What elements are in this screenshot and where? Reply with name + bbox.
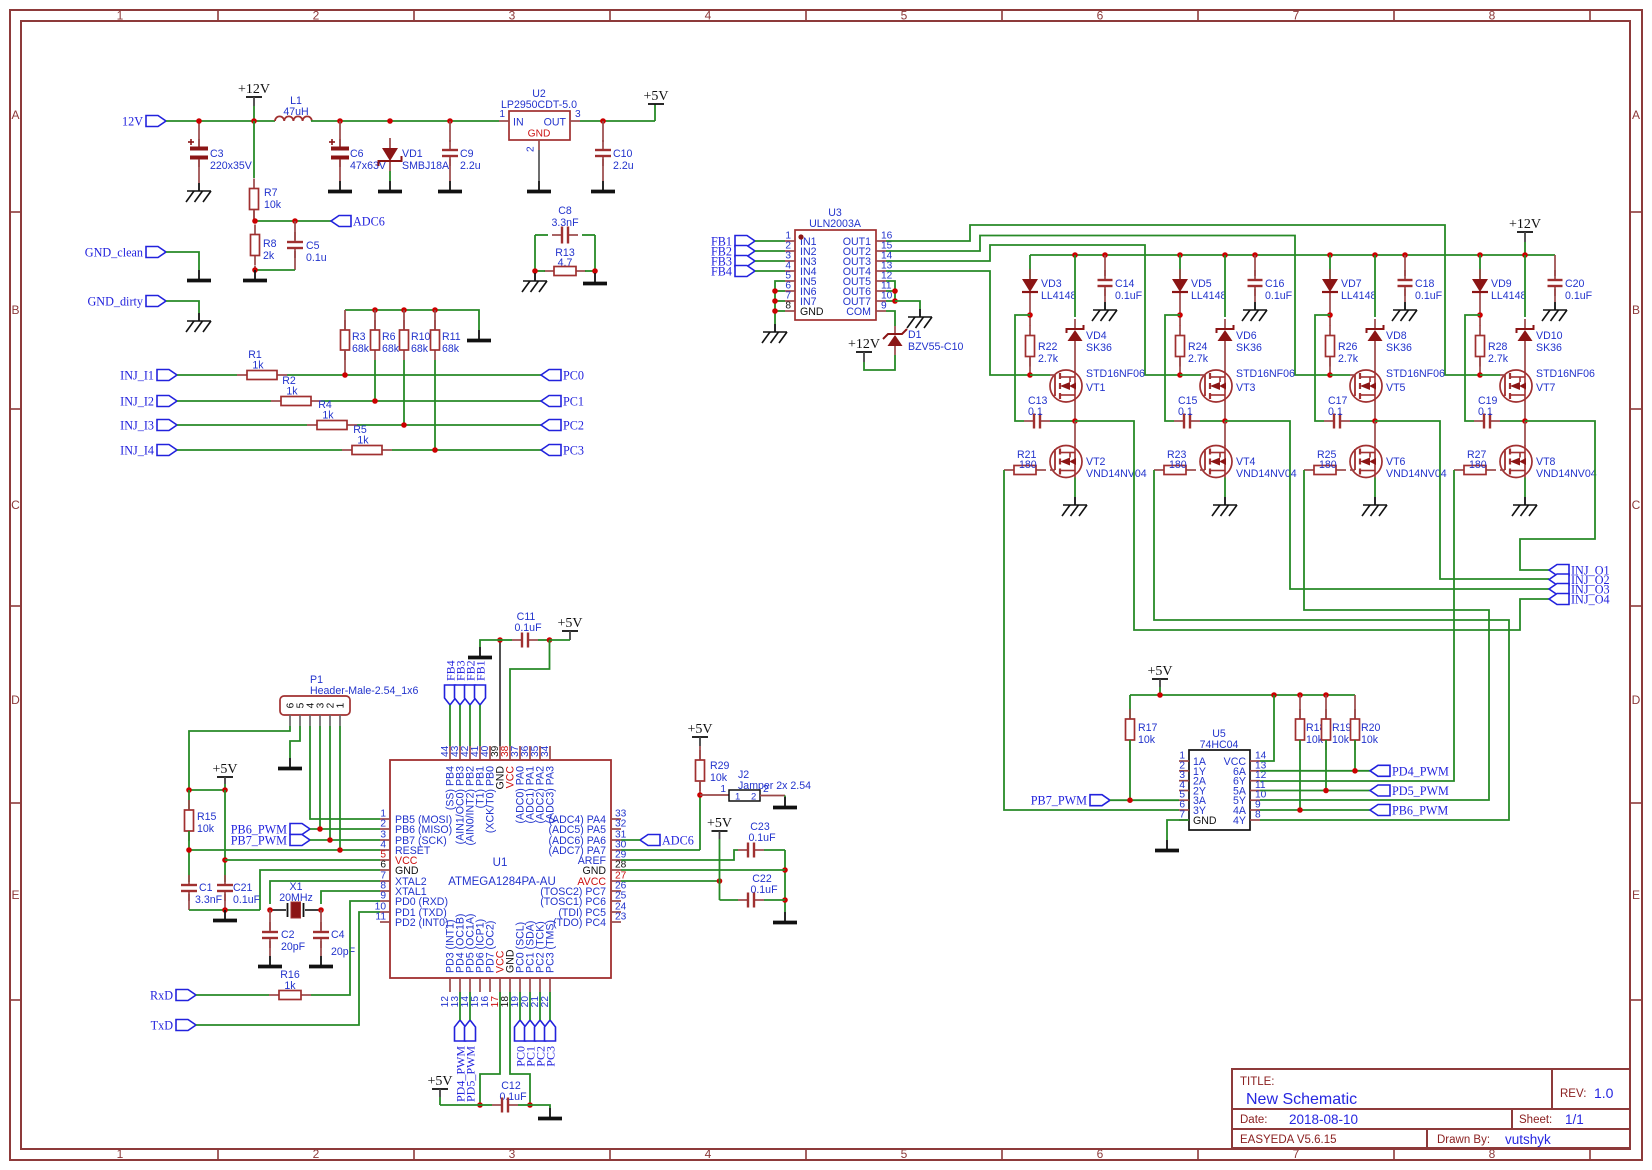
svg-text:PC3: PC3 [563,444,584,458]
svg-text:20pF: 20pF [281,941,306,953]
U1 pin 17 VCC [499,978,501,992]
ground under C8/R13 left [534,273,536,281]
resistor R25 180 [1304,469,1314,471]
wire 5Y to R25 gate net [1260,470,1489,800]
svg-text:C21: C21 [233,882,253,894]
capacitor C20 rail bypass [1554,255,1556,276]
svg-text:R6: R6 [382,331,396,343]
wire VD7 node to snubber cap [1315,315,1330,421]
svg-text:IN: IN [513,117,524,129]
svg-text:SK36: SK36 [1086,342,1112,354]
svg-text:R22: R22 [1038,341,1058,353]
U1 pin 34 (ADC3) PA3 [549,746,551,760]
svg-text:10k: 10k [710,772,728,784]
U1 pin 29 AREF [611,859,621,861]
svg-text:8: 8 [785,301,791,312]
svg-text:3: 3 [509,1147,516,1161]
capacitor C16 rail bypass [1254,255,1256,276]
svg-text:VD9: VD9 [1491,278,1512,290]
wire U2 out to +5V [580,120,655,122]
svg-text:STD16NF06: STD16NF06 [1386,368,1445,380]
svg-text:68k: 68k [411,343,429,355]
gate junction VT5 [1327,372,1333,378]
svg-text:PB7_PWM: PB7_PWM [1031,794,1087,808]
svg-text:PC0: PC0 [563,369,584,383]
port PD5_PWM [1370,785,1390,796]
svg-text:R15: R15 [197,811,217,823]
svg-text:3.3nF: 3.3nF [195,894,223,906]
U1 pin 22 PC3 (TMS) [549,978,551,992]
wire +5V to C12 [440,1104,480,1106]
svg-text:C1: C1 [199,882,213,894]
svg-text:PD5_PWM: PD5_PWM [464,1046,478,1102]
U3 pin 4 IN4 [785,270,795,272]
svg-text:ADC6: ADC6 [662,834,694,848]
transistor VT5 STD16NF06 [1350,370,1382,402]
svg-text:Drawn By:: Drawn By: [1437,1134,1490,1146]
svg-text:2: 2 [763,784,769,795]
resistor R27 180 [1454,469,1464,471]
ground under VT2 [1074,497,1076,505]
svg-text:12V: 12V [122,115,143,129]
port PC1 [541,396,561,407]
U1 pin 18 GND [509,978,511,992]
port FB2 [735,246,755,257]
svg-text:2.7k: 2.7k [1038,353,1059,365]
svg-text:VT7: VT7 [1536,382,1556,394]
U1 pin 40 (XCK/T0) PB0 [489,746,491,760]
wire P1 pin4 to PB5 [310,726,380,819]
wire ground bus under C1/C21 [189,909,260,911]
transistor VT8 VND14NV04 [1524,421,1526,446]
wire C11 left to ground [480,640,500,647]
resistor R6 [374,310,376,329]
U1 pin 20 PC1 (SDA) [529,978,531,992]
resistor R17 10k [1129,695,1131,719]
svg-text:10k: 10k [197,823,215,835]
svg-text:1: 1 [499,109,505,120]
U1 pin 25 (TOSC1) PC6 [611,900,621,902]
wire 4A to PB6_PWM [1260,809,1370,811]
svg-text:New Schematic: New Schematic [1246,1091,1357,1108]
svg-text:INJ_I4: INJ_I4 [120,444,154,458]
wire VT5 source to INJ_O2 [1375,421,1549,579]
svg-text:8: 8 [1489,1147,1496,1161]
svg-text:C20: C20 [1565,278,1585,290]
svg-text:VD10: VD10 [1536,330,1563,342]
ground under C10 [602,181,604,190]
svg-text:2.2u: 2.2u [460,160,481,172]
svg-text:3.3nF: 3.3nF [551,217,579,229]
svg-text:1.0: 1.0 [1594,1085,1614,1101]
capacitor C17 snubber [1324,420,1334,422]
wire P1 pin6 to +5V rail [189,726,290,790]
wire U5 VCC to rail [1260,695,1274,761]
svg-text:A: A [11,108,19,122]
wire OUT7 to ground [895,301,920,309]
U1 pin 14 PD5 (OC1A) [469,978,471,992]
wire source VT2 to ground [1074,478,1076,498]
svg-text:2: 2 [313,9,320,23]
wire AVCC row [621,880,720,882]
resistor R4 [307,424,317,426]
svg-text:11: 11 [375,912,386,923]
svg-text:180: 180 [1019,459,1037,471]
svg-text:3: 3 [575,109,581,120]
svg-text:C16: C16 [1265,278,1285,290]
svg-text:REV:: REV: [1560,1088,1586,1100]
svg-text:C14: C14 [1115,278,1135,290]
ground under C8/R13 right [594,273,596,282]
svg-text:PC1: PC1 [563,395,584,409]
resistor R5 [342,449,352,451]
svg-text:C18: C18 [1415,278,1435,290]
ground P1 pin5 [289,758,291,767]
port GND_clean [146,247,166,258]
ground under VT6 [1374,497,1376,505]
svg-text:VND14NV04: VND14NV04 [1386,468,1447,480]
U3 pin 5 IN5 [785,280,795,282]
wire U3 OUT5-OUT7 tie [886,281,895,301]
wire XTAL2 [270,881,380,904]
svg-text:+12V: +12V [1509,217,1541,232]
U1 pin 9 PD0 (RXD) [380,900,390,902]
port INJ_O1 [1549,565,1569,576]
wire VCC column [224,790,226,882]
svg-text:VT4: VT4 [1236,456,1256,468]
svg-text:2: 2 [751,792,756,803]
diode VD5 LL4148 [1179,255,1181,279]
svg-text:VT3: VT3 [1236,382,1256,394]
junction node under VD7 [1327,312,1333,318]
U1 pin 6 GND [380,869,390,871]
U3 pin 8 GND [785,310,795,312]
wire VT1 source to INJ_O4 [1075,421,1549,630]
svg-text:STD16NF06: STD16NF06 [1236,368,1295,380]
wire INJ_I2 row [177,400,271,402]
svg-text:0.1uF: 0.1uF [1415,290,1443,302]
port PC2 [541,420,561,431]
gate junction VT3 [1177,372,1183,378]
resistor R15 10k [188,790,190,811]
wire VD9 node to snubber cap [1465,315,1480,421]
svg-text:0.1u: 0.1u [306,252,327,264]
U5 pin 8 4Y [1250,819,1260,821]
svg-text:0.1: 0.1 [1028,406,1043,418]
wire RxD to PD0 [196,994,269,996]
U3 pin 12 OUT5 [876,280,886,282]
svg-text:7: 7 [1179,810,1185,821]
wire D1 to +12V [864,355,895,370]
svg-text:VD1: VD1 [402,148,423,160]
wire OUT2 to VT5 gate [886,236,1330,376]
svg-text:0.1uF: 0.1uF [1265,290,1293,302]
ground at C22/C23 [784,912,786,921]
U1 pin 10 PD1 (TXD) [380,911,390,913]
ground under C16 [1254,302,1256,310]
svg-text:1k: 1k [286,386,298,398]
capacitor C19 snubber [1474,420,1484,422]
U5 pin 6 3Y [1179,809,1189,811]
svg-text:C8: C8 [558,205,572,217]
wire GND_clean [166,252,199,270]
port PC3 [541,445,561,456]
ground under U2 [538,181,540,190]
U1 pin 32 (ADC5) PA5 [611,828,621,830]
svg-text:D1: D1 [908,329,922,341]
ground U3 unused outputs [919,309,921,317]
U3 pin 11 OUT6 [876,290,886,292]
svg-text:2: 2 [380,819,386,830]
wire 4Y to R23 gate net [1154,470,1509,820]
capacitor C18 rail bypass [1404,255,1406,276]
wire GND_dirty [166,301,199,313]
ports PC0-PC3 below U1 [515,1020,526,1041]
svg-text:A: A [1632,108,1640,122]
wire FB1 to U3 [755,240,785,242]
wire gate VT7 [1480,374,1500,376]
svg-text:PC3 (TMS): PC3 (TMS) [545,920,557,973]
resistor R26 2.7k [1329,326,1331,336]
svg-text:6: 6 [380,860,386,871]
ground under C4 [320,956,322,965]
svg-text:0.1uF: 0.1uF [748,832,776,844]
U3 pin 6 IN6 [785,290,795,292]
capacitor C4 20pF [320,910,322,930]
svg-text:LL4148: LL4148 [1041,290,1076,302]
svg-text:E: E [11,888,19,902]
diode VD4 SK36 [1074,255,1076,317]
ground under C9 [449,181,451,190]
U5 pin 12 6Y [1250,780,1260,782]
port FB1 [735,236,755,247]
svg-text:GND: GND [528,129,551,140]
wire source VT4 to ground [1224,478,1226,498]
resistor R29 10k [699,750,701,760]
U5 pin 10 5Y [1250,799,1260,801]
port INJ_I3 [157,420,177,431]
wire FB2 to U3 [755,250,785,252]
wire VCC pin17 to C12 [480,992,500,1105]
svg-text:6: 6 [1097,1147,1104,1161]
ground at C12 [549,1108,551,1117]
svg-text:LL4148: LL4148 [1191,290,1226,302]
svg-text:1/1: 1/1 [1565,1112,1584,1127]
port INJ_O4 [1549,594,1569,605]
svg-text:25: 25 [615,891,627,902]
port PD4_PWM [1370,765,1390,776]
U1 pin 12 PD3 (INT1) [449,978,451,992]
svg-text:R29: R29 [710,760,730,772]
wire FB4 to U3 [755,270,785,272]
ground U3 GND [774,324,776,332]
wire OUT1 to VT7 gate [886,225,1480,375]
wire R7 to ADC6 node [253,210,255,221]
diode VD7 LL4148 [1329,255,1331,279]
U1 pin 8 XTAL1 [380,890,390,892]
svg-text:2.7k: 2.7k [1488,353,1509,365]
svg-text:SK36: SK36 [1536,342,1562,354]
svg-text:68k: 68k [352,343,370,355]
svg-text:ULN2003A: ULN2003A [809,218,862,230]
ground under C20 [1554,302,1556,310]
svg-text:C4: C4 [331,929,345,941]
svg-text:32: 32 [615,819,627,830]
U5 pin 2 1Y [1179,770,1189,772]
U1 pin 31 (ADC6) PA6 [611,839,621,841]
ground under VT4 [1224,497,1226,505]
ground under C18 [1404,302,1406,310]
svg-text:2018-08-10: 2018-08-10 [1289,1112,1358,1127]
resistor R21 180 [1004,469,1014,471]
svg-text:R20: R20 [1361,722,1381,734]
svg-text:GND_dirty: GND_dirty [87,295,143,309]
U1 pin 24 (TDI) PC5 [611,911,621,913]
capacitor C13 snubber [1024,420,1034,422]
svg-text:R3: R3 [352,331,366,343]
svg-text:0.1: 0.1 [1328,406,1343,418]
svg-text:EASYEDA V5.6.15: EASYEDA V5.6.15 [1240,1134,1337,1146]
wire 12V rail right [311,120,499,122]
wire VT3 source to INJ_O3 [1225,421,1549,589]
wire XTAL1 [321,891,380,904]
resistor R1 [237,374,247,376]
U3 pin 14 OUT3 [876,260,886,262]
port PC0 [541,370,561,381]
capacitor C6 [339,121,341,149]
svg-text:VT8: VT8 [1536,456,1556,468]
svg-text:U1: U1 [493,857,508,869]
wire GND pin28 row [621,869,785,871]
wire P1 pin2 to PB7 [329,726,331,840]
resistor R8 [254,225,256,235]
ground under C14 [1104,302,1106,310]
svg-text:C3: C3 [210,148,224,160]
svg-text:R8: R8 [263,238,277,250]
U5 pin 4 2Y [1179,790,1189,792]
svg-text:180: 180 [1319,459,1337,471]
svg-text:20pF: 20pF [331,946,356,958]
resistor R11 [434,310,436,329]
wire C12 right to ground [530,1105,550,1108]
wire VD3 node to snubber cap [1015,315,1030,421]
wire VD5 node to snubber cap [1165,315,1180,421]
svg-text:GND: GND [1193,815,1217,827]
svg-text:C2: C2 [281,929,295,941]
wire 3Y to R21 gate net [1004,470,1179,810]
wire P1 pin5 to ground [290,726,300,758]
svg-text:8: 8 [1255,810,1261,821]
svg-text:STD16NF06: STD16NF06 [1536,368,1595,380]
svg-text:+12V: +12V [848,337,880,352]
svg-text:2k: 2k [263,250,275,262]
ground at bus right [478,330,480,339]
resistor R18 10k [1299,695,1301,719]
wire 6A to PD4_PWM [1260,770,1370,772]
U5 pin 5 3A [1179,799,1189,801]
ground under R8 [254,270,256,279]
svg-text:+12V: +12V [238,82,270,97]
U1 pin 44 (SS) PB4 [449,746,451,760]
U1 pin 39 GND [499,746,501,760]
svg-text:2.7k: 2.7k [1338,353,1359,365]
U3 pin 13 OUT4 [876,270,886,272]
ground under VT8 [1524,497,1526,505]
resistor R23 180 [1154,469,1164,471]
port INJ_O3 [1549,584,1569,595]
svg-text:C: C [11,498,20,512]
wire U5 GND to ground [1167,820,1189,840]
junction dots injector rows [342,372,348,378]
svg-text:180: 180 [1469,459,1487,471]
wire +5V rail at U5 [1130,694,1355,696]
U1 pin 21 PC2 (TCK) [539,978,541,992]
svg-text:4Y: 4Y [1233,815,1246,827]
wire INJ_I4 row [177,449,342,451]
U1 pin 35 (ADC2) PA2 [539,746,541,760]
svg-text:0.1: 0.1 [1478,406,1493,418]
inductor L1 [275,116,312,121]
transistor VT1 STD16NF06 [1050,370,1082,402]
svg-text:220x35V: 220x35V [210,160,253,172]
wire OUT3 to VT3 gate [886,245,1180,375]
svg-text:LL4148: LL4148 [1491,290,1526,302]
resistor R3 [344,310,346,329]
svg-text:VND14NV04: VND14NV04 [1236,468,1297,480]
capacitor C5 [294,221,296,240]
svg-text:FB4: FB4 [711,265,732,279]
svg-text:R10: R10 [411,331,431,343]
svg-text:C9: C9 [460,148,474,160]
U1 pin 4 RESET [380,849,390,851]
U1 pin 33 (ADC4) PA4 [611,818,621,820]
svg-text:vutshyk: vutshyk [1505,1132,1551,1147]
svg-text:VT6: VT6 [1386,456,1406,468]
ground under C6 [339,181,341,190]
resistor R24 2.7k [1179,326,1181,336]
U1 pin 42 (AIN0/INT2) PB2 [469,746,471,760]
svg-text:1: 1 [720,784,726,795]
svg-text:ADC6: ADC6 [353,215,385,229]
svg-text:OUT: OUT [544,117,567,129]
capacitor C15 snubber [1174,420,1184,422]
svg-text:LL4148: LL4148 [1341,290,1376,302]
transistor VT7 STD16NF06 [1500,370,1532,402]
svg-text:INJ_O4: INJ_O4 [1571,593,1610,607]
transistor VT2 VND14NV04 [1074,421,1076,446]
svg-text:R26: R26 [1338,341,1358,353]
port PB6_PWM at U1 [290,824,310,835]
capacitor C10 [602,121,604,142]
svg-text:8: 8 [1489,9,1496,23]
capacitor C9 [449,121,451,142]
svg-text:0.1uF: 0.1uF [1115,290,1143,302]
svg-text:1: 1 [336,702,347,708]
wire +12V driver rail [1030,254,1555,256]
wire gate VT5 [1330,374,1350,376]
wire U3 IN5-IN7-GND tie [775,281,785,324]
port FB3 [735,256,755,267]
U5 pin 7 GND [1179,819,1189,821]
U3 pin 15 OUT2 [876,250,886,252]
svg-text:+5V: +5V [212,762,237,777]
svg-text:D: D [11,693,20,707]
ground U5 [1166,840,1168,849]
svg-text:PD2 (INT0): PD2 (INT0) [395,917,449,929]
ports PD4_PWM PD5_PWM below U1 [455,1020,466,1041]
svg-text:4: 4 [705,1147,712,1161]
U1 pin 28 GND [611,869,621,871]
